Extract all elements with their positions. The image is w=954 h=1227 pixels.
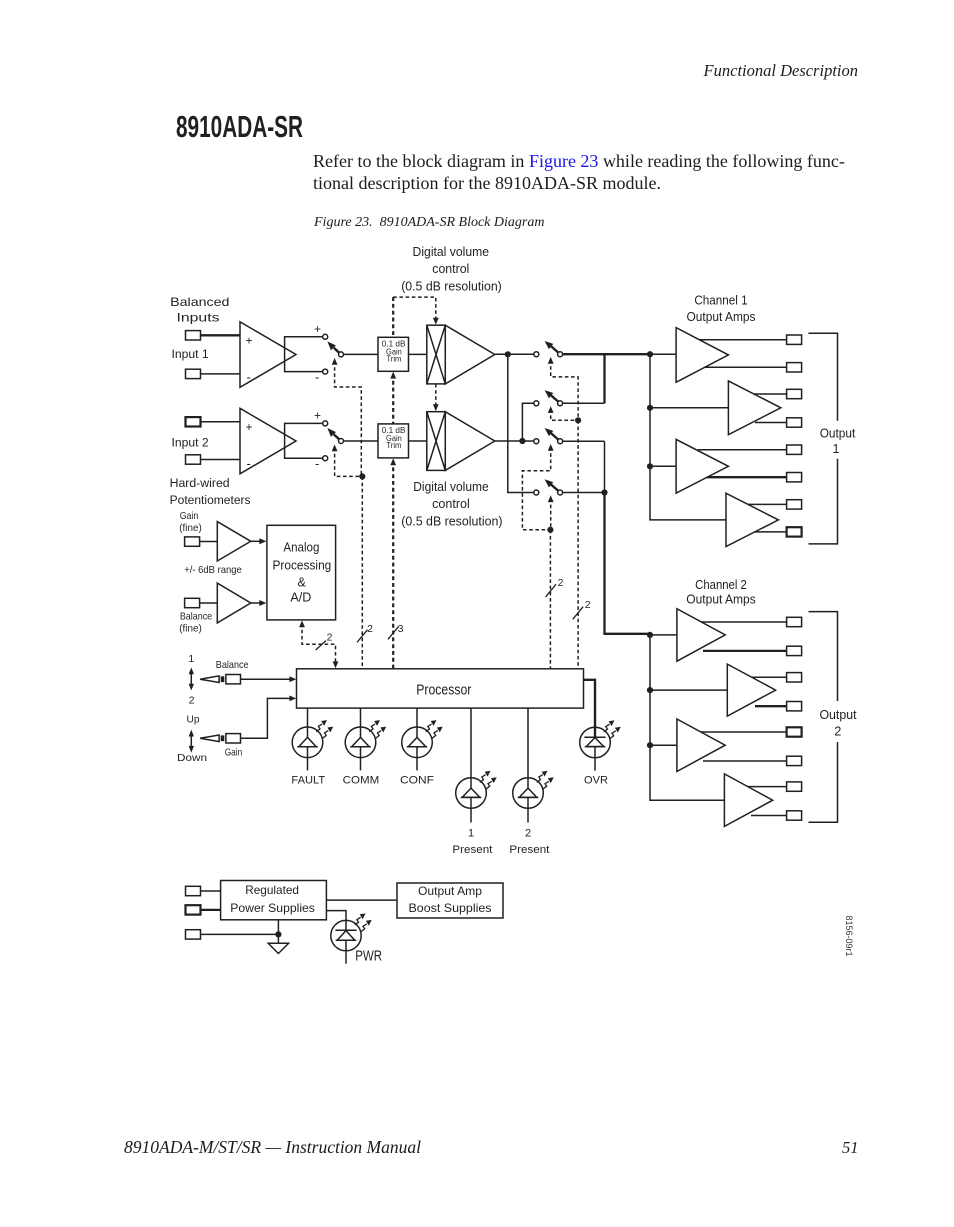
switch SWC ch2 from input2	[534, 428, 563, 444]
op-amp B2 ch2 output amp	[727, 664, 775, 716]
wire below COMM led	[360, 758, 362, 771]
footer	[124, 1137, 421, 1158]
svg-text:Present: Present	[452, 844, 492, 856]
node N2 input2 signal	[519, 438, 525, 444]
figure number sidebar	[808, 913, 854, 959]
svg-text:(0.5 dB resolution): (0.5 dB resolution)	[401, 280, 502, 294]
contact SW2 pos	[323, 421, 328, 426]
node ch1 bus top	[647, 351, 653, 357]
wire J1+ to U1 (bold)	[201, 334, 241, 336]
wire PS1 to ground	[277, 920, 279, 944]
arrowhead SWA	[548, 357, 554, 364]
wire J5 to U5	[200, 541, 218, 543]
arrowhead U6 into A/D	[259, 600, 266, 606]
wire U5 to A/D	[251, 540, 261, 542]
svg-text:3: 3	[398, 623, 404, 635]
svg-text:+: +	[246, 334, 253, 348]
wire PS1 to PS2	[326, 899, 397, 901]
wire PS1 to PWR led	[326, 911, 346, 931]
block PS2 output amp boost supplies	[397, 883, 503, 918]
svg-text:-: -	[247, 456, 251, 471]
arrowhead balance into processor	[289, 676, 296, 682]
pot gain lever	[200, 734, 240, 743]
buswidth slash gain-trim	[388, 627, 398, 640]
svg-text:Input 2: Input 2	[172, 435, 210, 449]
terminal J3 Input2+ (bold)	[186, 417, 201, 426]
wire B1 out- (bold)	[703, 650, 787, 652]
op-amp U6 balance buffer	[217, 583, 251, 623]
terminal J6 balance-fine	[185, 598, 200, 607]
arrowhead SWB	[548, 406, 554, 413]
terminal ch2 out box4	[787, 702, 802, 711]
led DS1 FAULT	[292, 720, 333, 758]
svg-text:Gain: Gain	[225, 747, 243, 759]
op-amp B3 ch2 output amp	[677, 719, 725, 772]
figure caption	[314, 215, 544, 231]
terminal ch2 out boxes	[787, 617, 802, 626]
svg-text:FAULT: FAULT	[291, 775, 325, 787]
net ch2-route bus (2 wires)	[549, 530, 551, 669]
wire SW2 to AT2	[343, 440, 378, 442]
arrowhead into M1	[433, 318, 439, 325]
contact SW2 neg	[323, 456, 328, 461]
svg-text:CONF: CONF	[400, 775, 434, 787]
block processor	[297, 669, 584, 708]
wire N2 up to SWB	[522, 403, 534, 441]
svg-text:Digital volume: Digital volume	[413, 480, 489, 494]
wire ch2 bus	[650, 634, 724, 800]
wire tie SWC/SWD	[604, 441, 606, 492]
svg-text:Power Supplies: Power Supplies	[230, 901, 315, 915]
node ch2 bus tap2	[647, 687, 653, 693]
wire N1 down to SWD	[508, 354, 534, 492]
net A/D to processor (2 wires)	[302, 624, 336, 665]
svg-text:2: 2	[327, 632, 333, 644]
switch SWD ch2 from input1	[534, 479, 563, 495]
block PS1 regulated power supplies	[221, 881, 327, 920]
wire bus to B2	[650, 689, 750, 691]
arrowhead SWC	[548, 444, 554, 451]
wire tie SWA/SWB (bold)	[603, 354, 605, 403]
wire U6 to A/D	[251, 602, 261, 604]
node U3 output bracket	[285, 423, 323, 458]
wire AT2 to M2	[409, 440, 427, 442]
wire B3 out+	[698, 731, 787, 733]
terminal J1 Input1+	[186, 331, 201, 340]
multiplier M2 digital volume ch2	[427, 412, 446, 471]
led DS5 present 2	[513, 771, 554, 809]
net SWB ctrl	[551, 409, 578, 420]
ground symbol	[268, 943, 288, 953]
net ch1-route bus (2 wires)	[577, 420, 579, 669]
svg-text:Hard-wired: Hard-wired	[170, 476, 230, 490]
switch SW2 input polarity select	[327, 428, 343, 444]
svg-text:Balanced: Balanced	[170, 295, 229, 309]
wire A3 out+	[698, 449, 787, 451]
control gain rocker	[189, 730, 194, 753]
wire U4 out to node N2	[495, 440, 534, 442]
svg-text:+: +	[314, 322, 321, 336]
svg-text:Trim: Trim	[386, 441, 401, 450]
led DS3 CONF	[402, 720, 443, 758]
svg-text:2: 2	[585, 599, 591, 611]
led DS6 OVR body	[580, 727, 611, 758]
wire A4 out+	[748, 503, 787, 505]
net SWC ctrl	[522, 447, 550, 530]
op-amp A4 ch1 output amp	[726, 493, 778, 546]
node N1 input1 signal	[505, 351, 511, 357]
wire B4 out-	[751, 815, 787, 817]
op-amp U3 input amp 2	[240, 408, 296, 474]
svg-text:Output Amps: Output Amps	[686, 593, 755, 607]
wire processor to CONF led	[416, 708, 418, 727]
node ch1 bus tap2	[647, 405, 653, 411]
op-amp U5 gain buffer	[217, 522, 251, 561]
svg-text:control: control	[432, 497, 470, 511]
wire AT1 to M1	[409, 353, 427, 355]
svg-text:-: -	[315, 456, 319, 471]
bracket Output 2	[809, 612, 838, 701]
wire processor to FAULT led	[307, 708, 309, 727]
block analog processing A/D	[267, 525, 336, 620]
svg-text:Processing: Processing	[273, 558, 332, 572]
gain trim AT2 0.1dB	[378, 424, 409, 458]
header running title	[704, 61, 858, 81]
arrowhead gain into processor	[289, 696, 296, 702]
svg-text:(fine): (fine)	[179, 522, 202, 534]
wire B1 out+	[698, 621, 787, 623]
section title	[176, 110, 303, 145]
gain trim AT1 0.1dB	[378, 337, 409, 371]
node ch2 bus tap3	[647, 742, 653, 748]
op-amp B1 ch2 output amp	[677, 609, 725, 662]
wire bus to A2	[650, 407, 750, 409]
arrowhead into AT1	[390, 372, 396, 379]
junction input-select ctrl	[359, 473, 365, 479]
wire J2- to U1	[201, 373, 241, 375]
svg-text:Boost Supplies: Boost Supplies	[409, 901, 492, 915]
wire gain to processor	[240, 698, 291, 738]
node U1 output bracket	[285, 337, 323, 372]
svg-text:(fine): (fine)	[179, 623, 202, 635]
svg-text:Output: Output	[819, 708, 857, 722]
pot balance lever	[200, 675, 240, 684]
wire ch1 bus	[650, 354, 726, 520]
svg-text:+: +	[314, 409, 321, 423]
svg-text:&: &	[298, 576, 307, 590]
wire N3 to ch2 bus (bold)	[605, 493, 651, 634]
terminal J8 supply (bold)	[186, 905, 201, 914]
svg-text:2: 2	[558, 577, 564, 589]
op-amp A1 ch1 output amp	[676, 328, 728, 383]
node ground tie	[275, 931, 281, 937]
wire processor to present1 led	[470, 708, 472, 778]
wire J4- to U3	[201, 459, 241, 461]
wire below FAULT led	[307, 758, 309, 771]
node N3 ch2 feed	[601, 489, 607, 495]
net M1 to M2 volume ctrl	[435, 384, 437, 408]
node ch1 bus tap3	[647, 463, 653, 469]
svg-text:Analog: Analog	[283, 541, 319, 555]
arrowhead U5 into A/D	[259, 538, 266, 544]
junction ch1-route ctrl	[575, 417, 581, 423]
op-amp B4 ch2 output amp	[724, 774, 772, 827]
wire B2 out- (bold)	[755, 705, 787, 707]
svg-text:+/- 6dB range: +/- 6dB range	[184, 564, 242, 576]
net input-select bus (2 wires)	[361, 476, 363, 668]
svg-text:Channel 1: Channel 1	[694, 294, 747, 308]
wire B2 out+	[750, 676, 787, 678]
arrowhead into processor (A/D net)	[333, 661, 339, 668]
wire processor to COMM led	[360, 708, 362, 727]
arrowhead into M2	[433, 404, 439, 411]
multiplier M1 digital volume ch1	[427, 325, 446, 384]
terminal J5 gain-fine	[185, 537, 200, 546]
wire J8 to PS1 (bold)	[201, 909, 221, 911]
control balance rocker	[189, 668, 194, 691]
arrowhead SW1	[332, 358, 338, 365]
wire processor to present2 led	[527, 708, 529, 778]
led DS4 present 1	[456, 771, 497, 809]
terminal ch2 out box5 (bold)	[787, 727, 802, 736]
svg-text:2: 2	[525, 828, 531, 840]
junction ch2-route ctrl	[547, 527, 553, 533]
svg-text:2: 2	[367, 623, 373, 635]
led DS7 PWR internals	[335, 929, 356, 931]
switch SWB ch1 from input2	[534, 390, 563, 406]
wire J6 to U6	[200, 602, 218, 604]
svg-text:Gain: Gain	[180, 510, 199, 522]
svg-text:2: 2	[189, 695, 195, 707]
wire B3 out-	[703, 760, 787, 762]
wire B4 out+	[746, 786, 787, 788]
svg-text:Trim: Trim	[386, 355, 401, 364]
led DS2 COMM	[345, 720, 386, 758]
terminal J7 supply	[186, 886, 201, 895]
wire J9 to ground node	[201, 933, 279, 935]
svg-text:Output: Output	[820, 426, 856, 440]
svg-text:A/D: A/D	[290, 590, 311, 604]
svg-text:1: 1	[188, 653, 194, 665]
wire A1 out+	[698, 339, 787, 341]
arrowhead SW2	[332, 445, 338, 452]
wire A3 out- (bold)	[703, 476, 787, 478]
wire SWA to ch1 bus (bold)	[562, 353, 650, 355]
svg-text:Present: Present	[509, 844, 549, 856]
body paragraph	[313, 151, 858, 194]
svg-text:Channel 2: Channel 2	[695, 578, 747, 592]
wire balance to processor	[240, 678, 291, 680]
net SW2 ctrl	[335, 448, 362, 477]
buswidth slash input-select	[357, 630, 367, 643]
terminal J4 Input2-	[186, 455, 201, 464]
switch SW1 input polarity select	[327, 341, 343, 357]
wire A2 out+	[750, 393, 787, 395]
svg-text:Balance: Balance	[216, 659, 249, 671]
wire SWD to node N3	[562, 492, 604, 494]
svg-text:1: 1	[468, 828, 474, 840]
svg-text:-: -	[247, 370, 251, 385]
svg-text:control: control	[432, 262, 469, 276]
op-amp U4 VCA ch2	[445, 412, 495, 471]
net gain-trim bus (3 wires, bold)	[392, 297, 394, 337]
terminal ch1 out boxes	[787, 335, 802, 344]
node ch2 bus top	[647, 632, 653, 638]
svg-text:PWR: PWR	[355, 947, 382, 964]
svg-text:Regulated: Regulated	[245, 883, 299, 897]
wire SW1 to AT1	[343, 353, 378, 355]
op-amp U1 input amp 1	[240, 322, 296, 388]
svg-text:(0.5 dB resolution): (0.5 dB resolution)	[401, 515, 502, 529]
arrowhead into A/D	[299, 620, 305, 627]
wire bus to A3	[650, 465, 700, 467]
svg-text:2: 2	[834, 725, 841, 739]
wire bus to B3	[650, 744, 700, 746]
net SW1 ctrl	[335, 361, 362, 476]
svg-text:-: -	[315, 370, 319, 385]
op-amp U2 VCA ch1	[445, 325, 495, 384]
wire U2 out to SWA	[495, 353, 534, 355]
wire processor to OVR led (bold)	[584, 680, 596, 738]
buswidth slash ch2-route	[546, 584, 556, 597]
wire A2 out-	[755, 422, 787, 424]
wire below present2 led	[527, 808, 529, 822]
svg-text:Output Amp: Output Amp	[418, 884, 482, 898]
svg-text:+: +	[246, 420, 253, 434]
terminal J2 Input1-	[186, 369, 201, 378]
led DS6 OVR internals	[584, 736, 605, 738]
net SWA ctrl	[551, 360, 578, 420]
svg-text:Down: Down	[177, 752, 207, 764]
svg-text:Output Amps: Output Amps	[687, 310, 756, 324]
wire bus to B1	[650, 634, 700, 636]
arrowhead into AT2	[390, 458, 396, 465]
svg-text:Balance: Balance	[180, 610, 212, 622]
led DS7 PWR body	[331, 920, 361, 950]
svg-text:Digital volume: Digital volume	[413, 245, 490, 259]
wire SWC to bus tie	[562, 440, 604, 442]
buswidth slash ch1-route	[573, 607, 583, 620]
op-amp A2 ch1 output amp	[728, 381, 780, 435]
svg-text:Potentiometers: Potentiometers	[170, 493, 251, 507]
arrowhead SWD	[548, 495, 554, 502]
net volume ctrl to M1	[393, 297, 436, 321]
svg-text:COMM: COMM	[343, 775, 380, 787]
wire bus to A1	[650, 353, 700, 355]
svg-text:Inputs: Inputs	[177, 311, 220, 325]
wire A4 out-	[753, 531, 787, 533]
wire below CONF led	[416, 758, 418, 771]
wire SWB to bus tie	[562, 402, 604, 404]
op-amp A3 ch1 output amp	[676, 439, 728, 493]
contact SW1 pos	[323, 334, 328, 339]
wire J3+ to U3	[201, 421, 241, 423]
svg-text:Processor: Processor	[416, 682, 471, 699]
wire J7 to PS1	[201, 890, 221, 892]
terminal ch1 out box8 (bold)	[787, 527, 802, 536]
buswidth slash A/D net	[316, 641, 326, 650]
wire below OVR led	[594, 747, 596, 771]
svg-text:1: 1	[833, 442, 840, 456]
svg-text:Input 1: Input 1	[172, 347, 210, 361]
svg-text:Up: Up	[187, 713, 200, 725]
wire below present1 led	[470, 808, 472, 822]
wire A1 out-	[703, 366, 787, 368]
svg-text:OVR: OVR	[584, 775, 608, 787]
contact SW1 neg	[323, 369, 328, 374]
bracket Output 1	[809, 333, 838, 420]
terminal J9 supply	[186, 930, 201, 939]
net SWD ctrl	[550, 498, 552, 529]
switch SWA ch1 from input1	[534, 341, 563, 357]
